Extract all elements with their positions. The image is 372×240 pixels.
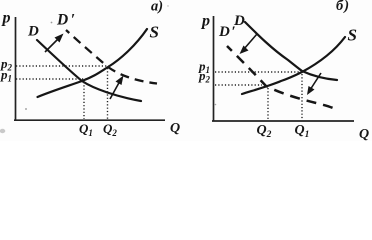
left dotted vertical Q2 (107, 68, 109, 119)
right shift arrow lower (D to D') (307, 73, 321, 95)
left supply curve S (38, 29, 148, 97)
scan speck near D' left (51, 22, 53, 24)
right x-axis (Q) (212, 120, 354, 122)
svg-text:Q: Q (170, 121, 180, 136)
scan speck below S start left (25, 108, 27, 110)
svg-text:Q2: Q2 (257, 123, 272, 140)
svg-text:Q2: Q2 (103, 121, 117, 138)
right dotted level line p1 (215, 71, 300, 73)
right demand curve D (245, 22, 337, 80)
svg-text:Q: Q (359, 127, 369, 141)
scan speck near a) label (167, 5, 168, 6)
svg-text:S: S (150, 23, 159, 42)
svg-text:а): а) (151, 0, 163, 15)
svg-text:Q1: Q1 (295, 123, 310, 140)
left dotted level line p1 (16, 78, 86, 80)
svg-text:S: S (348, 26, 357, 45)
right dotted level line p2 (215, 84, 262, 86)
left demand curve D (37, 40, 141, 101)
right shift arrow upper (D to D') (240, 34, 258, 54)
svg-text:D′: D′ (218, 24, 236, 40)
left shifted demand curve D' (dashed) (66, 30, 157, 84)
left dotted level line p2 (16, 65, 110, 67)
right supply curve S (242, 37, 345, 94)
scan speck right panel lower-left (215, 104, 217, 106)
svg-text:D′: D′ (56, 12, 75, 29)
scan smudge bottom-left corner (0, 129, 5, 133)
left dotted vertical Q1 (83, 82, 85, 119)
svg-text:б): б) (336, 0, 350, 14)
svg-text:p: p (200, 13, 210, 30)
left shift arrow upper (D to D') (45, 34, 64, 53)
left shift arrow lower (D to D') (110, 76, 124, 100)
right shifted demand curve D' (dashed) (227, 46, 333, 108)
svg-text:Q1: Q1 (79, 121, 93, 138)
svg-text:D: D (27, 24, 39, 40)
right dotted vertical Q1 (301, 74, 303, 119)
right dotted vertical Q2 (267, 88, 269, 119)
svg-text:p: p (1, 10, 11, 27)
right y-axis (p) (213, 16, 215, 122)
left x-axis (Q) (14, 119, 165, 121)
left y-axis (p) (15, 17, 17, 121)
